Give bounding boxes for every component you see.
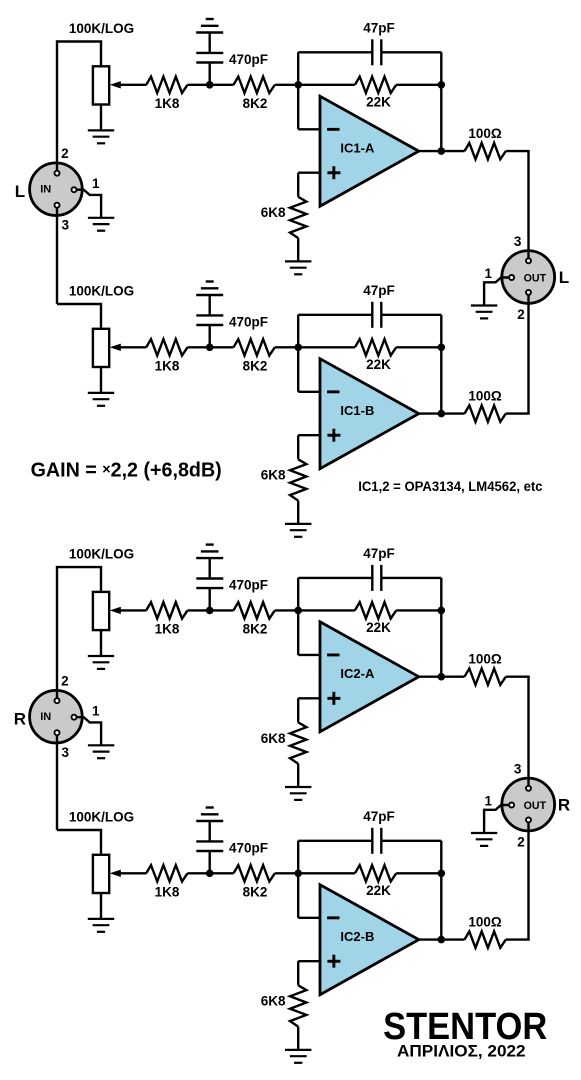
XLR input connector IN (L channel) bbox=[30, 163, 83, 216]
svg-text:22K: 22K bbox=[366, 620, 391, 635]
resistor 1K8 (IC2-A stage) bbox=[146, 602, 187, 618]
OUT R pin 3 bbox=[526, 786, 531, 791]
capacitor 47pF (IC2-A stage) bbox=[372, 565, 381, 591]
wire 470pF top bbox=[208, 33, 210, 53]
svg-text:100Ω: 100Ω bbox=[468, 914, 502, 929]
wire 47pF right bbox=[381, 840, 441, 842]
ground pot IC2-B bbox=[88, 919, 114, 932]
svg-text:470pF: 470pF bbox=[229, 577, 268, 592]
wire 100R to XLR corner bbox=[506, 150, 530, 152]
pot wiper arrow (IC1-A stage) bbox=[118, 84, 146, 86]
wire 22K to right vertical bbox=[396, 609, 441, 611]
wire 470pF top bbox=[208, 821, 210, 841]
OUT L pin 3 bbox=[526, 258, 531, 263]
resistor 6K8 (IC2-B stage) bbox=[290, 985, 306, 1026]
ground 6K8 (IC1-B stage) bbox=[285, 524, 311, 537]
gain note text bbox=[31, 459, 222, 481]
wire 47pF left bbox=[298, 314, 372, 316]
svg-text:IC1-B: IC1-B bbox=[340, 403, 374, 418]
capacitor 47pF (IC1-B stage) bbox=[372, 302, 381, 328]
node 470pF junction (IC1-B) bbox=[206, 344, 214, 352]
capacitor 470pF (IC2-A stage) bbox=[196, 579, 223, 589]
svg-text:47pF: 47pF bbox=[363, 546, 395, 561]
svg-text:R: R bbox=[14, 710, 26, 729]
wire 47pF right bbox=[381, 577, 441, 579]
OUT R pin 1 bbox=[509, 803, 514, 808]
wire op-amp output bbox=[419, 938, 465, 940]
wire OUT R pin3 to stage A bbox=[527, 677, 529, 789]
wire 100R to XLR corner bbox=[506, 676, 530, 678]
wire non-inverting to 6K8 bbox=[297, 698, 299, 722]
IN R pin 2 bbox=[55, 698, 60, 703]
capacitor 47pF (IC2-B stage) bbox=[372, 828, 381, 854]
resistor 22K (IC2-A stage) bbox=[355, 602, 396, 618]
wire 470pF bottom bbox=[208, 851, 210, 873]
capacitor 470pF (IC1-B stage) bbox=[196, 315, 223, 325]
wire 470pF bottom bbox=[208, 63, 210, 85]
resistor 8K2 (IC2-B stage) bbox=[234, 865, 275, 881]
wire IN L pin1 to ground bbox=[77, 190, 102, 218]
svg-text:6K8: 6K8 bbox=[261, 205, 286, 220]
resistor 100&#937; (IC1-A stage) bbox=[465, 143, 506, 159]
wire op-amp output bbox=[419, 676, 465, 678]
wire pot IC2-B bottom bbox=[100, 893, 102, 919]
wire node to 22K bbox=[298, 84, 355, 86]
node 470pF junction (IC2-B) bbox=[206, 870, 214, 878]
svg-text:IC1,2 = OPA3134, LM4562, etc: IC1,2 = OPA3134, LM4562, etc bbox=[358, 479, 543, 494]
svg-text:100K/LOG: 100K/LOG bbox=[69, 809, 134, 824]
wire to inverting input bbox=[298, 128, 321, 130]
ground 6K8 (IC2-A stage) bbox=[285, 787, 311, 800]
node 470pF junction (IC2-A) bbox=[206, 607, 214, 615]
node inverting input (IC1-A) bbox=[294, 81, 302, 89]
wire feedback left vertical bbox=[297, 315, 299, 392]
node 22K/47pF right (IC1-A) bbox=[438, 81, 446, 89]
node inverting input (IC2-B) bbox=[294, 870, 302, 878]
IN L pin 2 bbox=[55, 171, 60, 176]
svg-text:47pF: 47pF bbox=[363, 809, 395, 824]
wire to inverting input bbox=[298, 391, 321, 393]
wire non-inverting to 6K8 bbox=[297, 961, 299, 985]
resistor 22K (IC1-B stage) bbox=[355, 339, 396, 355]
wire 100R to XLR corner bbox=[506, 938, 530, 940]
wire OUT L pin1 to ground bbox=[484, 278, 509, 306]
IN R pin 3 bbox=[55, 730, 60, 735]
svg-text:ΑΠΡΙΛΙΟΣ, 2022: ΑΠΡΙΛΙΟΣ, 2022 bbox=[397, 1041, 526, 1060]
svg-text:GAIN = ×2,2 (+6,8dB): GAIN = ×2,2 (+6,8dB) bbox=[31, 459, 222, 481]
svg-text:1: 1 bbox=[92, 176, 100, 191]
ground top (IC2-B stage) bbox=[196, 808, 223, 822]
resistor 8K2 (IC2-A stage) bbox=[234, 602, 275, 618]
wire OUT R pin2 to stage B bbox=[527, 820, 529, 940]
svg-text:1: 1 bbox=[484, 266, 492, 281]
resistor 22K (IC2-B stage) bbox=[355, 865, 396, 881]
OUT L pin 2 bbox=[526, 290, 531, 295]
wire feedback right vertical bbox=[440, 52, 442, 151]
wire 47pF left bbox=[298, 577, 372, 579]
ground OUT L pin1 bbox=[471, 306, 497, 319]
wire IN R pin1 to ground bbox=[77, 717, 102, 745]
svg-text:1: 1 bbox=[92, 704, 100, 719]
node output (IC2-B) bbox=[438, 936, 446, 944]
wire op-amp output bbox=[419, 150, 465, 152]
ground IN L pin1 bbox=[88, 218, 114, 231]
svg-text:6K8: 6K8 bbox=[261, 994, 286, 1009]
node output (IC1-B) bbox=[438, 410, 446, 418]
wire pot IC1-B bottom bbox=[100, 367, 102, 393]
pot wiper arrow (IC2-A stage) bbox=[118, 609, 146, 611]
wire IN R pin2 to stage A bbox=[56, 566, 58, 701]
wire 470pF top bbox=[208, 558, 210, 578]
ground pot IC1-A bbox=[88, 130, 114, 143]
wire to non-inverting input bbox=[298, 697, 321, 699]
wire feedback left vertical bbox=[297, 578, 299, 655]
wire pot IC1-B top bbox=[57, 304, 101, 329]
IN L pin 3 bbox=[55, 203, 60, 208]
node inverting input (IC2-A) bbox=[294, 607, 302, 615]
node output (IC1-A) bbox=[438, 147, 446, 155]
wire IN L pin2 to stage A bbox=[56, 40, 58, 173]
potentiometer 100K/LOG (IC1-B stage) bbox=[93, 329, 109, 367]
op-amp IC2-A bbox=[320, 622, 419, 732]
ground IN R pin1 bbox=[88, 745, 114, 758]
svg-text:IC2-B: IC2-B bbox=[340, 929, 374, 944]
wire 8K2 to inverting node bbox=[275, 609, 298, 611]
wire 1K8 to node bbox=[188, 872, 234, 874]
svg-text:2: 2 bbox=[517, 307, 525, 322]
svg-text:100K/LOG: 100K/LOG bbox=[69, 283, 134, 298]
svg-text:L: L bbox=[559, 268, 569, 287]
IN R pin 1 bbox=[72, 715, 77, 720]
wire pot IC2-A top bbox=[57, 567, 101, 592]
svg-text:100K/LOG: 100K/LOG bbox=[69, 547, 134, 562]
wire feedback right vertical bbox=[440, 578, 442, 677]
wire 47pF right bbox=[381, 51, 441, 53]
ground 6K8 (IC1-A stage) bbox=[285, 261, 311, 274]
wire to non-inverting input bbox=[298, 960, 321, 962]
resistor 100&#937; (IC1-B stage) bbox=[465, 405, 506, 421]
wire feedback right vertical bbox=[440, 841, 442, 940]
wire OUT R pin1 to ground bbox=[484, 805, 509, 833]
ground top (IC2-A stage) bbox=[196, 545, 223, 559]
node 22K/47pF right (IC1-B) bbox=[438, 344, 446, 352]
svg-text:1K8: 1K8 bbox=[155, 96, 180, 111]
svg-text:3: 3 bbox=[514, 234, 522, 249]
svg-text:1K8: 1K8 bbox=[155, 622, 180, 637]
resistor 1K8 (IC1-B stage) bbox=[146, 339, 187, 355]
svg-text:IN: IN bbox=[40, 711, 51, 723]
pot wiper arrow (IC1-B stage) bbox=[118, 346, 146, 348]
potentiometer 100K/LOG (IC2-A stage) bbox=[93, 592, 109, 630]
svg-text:6K8: 6K8 bbox=[261, 731, 286, 746]
svg-text:470pF: 470pF bbox=[229, 52, 268, 67]
wire pot IC2-A bottom bbox=[100, 630, 102, 656]
wire IN R pin3 to stage B bbox=[56, 733, 58, 830]
svg-text:100K/LOG: 100K/LOG bbox=[69, 21, 134, 36]
svg-text:22K: 22K bbox=[366, 357, 391, 372]
wire 470pF bottom bbox=[208, 325, 210, 347]
svg-text:IC1-A: IC1-A bbox=[340, 140, 375, 155]
resistor 1K8 (IC2-B stage) bbox=[146, 865, 187, 881]
svg-text:47pF: 47pF bbox=[363, 21, 395, 36]
ground top (IC1-A stage) bbox=[196, 19, 223, 33]
wire 100R to XLR corner bbox=[506, 412, 530, 414]
wire 22K to right vertical bbox=[396, 84, 441, 86]
node output (IC2-A) bbox=[438, 673, 446, 681]
XLR output connector OUT (R channel) bbox=[502, 778, 555, 831]
wire node to 22K bbox=[298, 346, 355, 348]
wire 1K8 to node bbox=[188, 346, 234, 348]
wire IN L pin3 to stage B bbox=[56, 205, 58, 304]
OUT L pin 1 bbox=[509, 275, 514, 280]
IN L pin 1 bbox=[72, 187, 77, 192]
resistor 6K8 (IC2-A stage) bbox=[290, 722, 306, 763]
wire 6K8 to ground bbox=[297, 1027, 299, 1050]
svg-text:22K: 22K bbox=[366, 883, 391, 898]
svg-text:IN: IN bbox=[40, 184, 51, 196]
potentiometer 100K/LOG (IC2-B stage) bbox=[93, 855, 109, 893]
OUT R pin 2 bbox=[526, 817, 531, 822]
potentiometer 100K/LOG (IC1-A stage) bbox=[93, 66, 109, 104]
wire 1K8 to node bbox=[188, 84, 234, 86]
wire pot IC2-B top bbox=[57, 830, 101, 855]
resistor 100&#937; (IC2-B stage) bbox=[465, 931, 506, 947]
svg-text:470pF: 470pF bbox=[229, 840, 268, 855]
capacitor 470pF (IC1-A stage) bbox=[196, 53, 223, 63]
node inverting input (IC1-B) bbox=[294, 344, 302, 352]
svg-text:470pF: 470pF bbox=[229, 314, 268, 329]
wire 470pF bottom bbox=[208, 588, 210, 610]
svg-text:1K8: 1K8 bbox=[155, 358, 180, 373]
wire non-inverting to 6K8 bbox=[297, 435, 299, 459]
ground OUT R pin1 bbox=[471, 833, 497, 846]
svg-text:3: 3 bbox=[514, 762, 522, 777]
svg-text:IC2-A: IC2-A bbox=[340, 666, 375, 681]
wire OUT L pin2 to stage B bbox=[527, 292, 529, 413]
svg-text:100Ω: 100Ω bbox=[468, 388, 502, 403]
resistor 8K2 (IC1-B stage) bbox=[234, 339, 275, 355]
wire pot IC1-A top bbox=[57, 42, 101, 67]
wire 8K2 to inverting node bbox=[275, 84, 298, 86]
resistor 1K8 (IC1-A stage) bbox=[146, 77, 187, 93]
wire node to 22K bbox=[298, 609, 355, 611]
wire 8K2 to inverting node bbox=[275, 346, 298, 348]
resistor 6K8 (IC1-A stage) bbox=[290, 197, 306, 238]
svg-text:2: 2 bbox=[61, 146, 69, 161]
wire node to 22K bbox=[298, 872, 355, 874]
node 22K/47pF right (IC2-A) bbox=[438, 607, 446, 615]
svg-text:R: R bbox=[558, 795, 570, 814]
wire to inverting input bbox=[298, 654, 321, 656]
wire feedback left vertical bbox=[297, 52, 299, 129]
svg-text:OUT: OUT bbox=[524, 272, 547, 284]
XLR output connector OUT (L channel) bbox=[502, 251, 555, 304]
wire 47pF left bbox=[298, 51, 372, 53]
ground top (IC1-B stage) bbox=[196, 282, 223, 296]
ground pot IC1-B bbox=[88, 393, 114, 406]
wire 6K8 to ground bbox=[297, 501, 299, 524]
wire to inverting input bbox=[298, 917, 321, 919]
XLR input connector IN (R channel) bbox=[30, 690, 83, 743]
svg-text:22K: 22K bbox=[366, 95, 391, 110]
op-amp IC1-A bbox=[320, 96, 419, 206]
wire OUT L pin3 to stage A bbox=[527, 151, 529, 261]
node 22K/47pF right (IC2-B) bbox=[438, 870, 446, 878]
ground pot IC2-A bbox=[88, 656, 114, 669]
svg-text:100Ω: 100Ω bbox=[468, 126, 502, 141]
wire 8K2 to inverting node bbox=[275, 872, 298, 874]
svg-text:8K2: 8K2 bbox=[243, 622, 268, 637]
wire op-amp output bbox=[419, 412, 465, 414]
wire 22K to right vertical bbox=[396, 346, 441, 348]
resistor 22K (IC1-A stage) bbox=[355, 77, 396, 93]
svg-text:8K2: 8K2 bbox=[243, 358, 268, 373]
op-amp IC1-B bbox=[320, 359, 419, 469]
svg-text:L: L bbox=[15, 182, 25, 201]
wire 6K8 to ground bbox=[297, 238, 299, 261]
wire to non-inverting input bbox=[298, 434, 321, 436]
svg-text:1K8: 1K8 bbox=[155, 884, 180, 899]
svg-text:8K2: 8K2 bbox=[243, 884, 268, 899]
wire 6K8 to ground bbox=[297, 764, 299, 787]
svg-text:3: 3 bbox=[61, 745, 69, 760]
svg-text:6K8: 6K8 bbox=[261, 468, 286, 483]
wire 47pF left bbox=[298, 840, 372, 842]
svg-text:3: 3 bbox=[61, 218, 69, 233]
svg-text:47pF: 47pF bbox=[363, 283, 395, 298]
pot wiper arrow (IC2-B stage) bbox=[118, 872, 146, 874]
wire 1K8 to node bbox=[188, 609, 234, 611]
wire pot IC1-A bottom bbox=[100, 105, 102, 131]
capacitor 470pF (IC2-B stage) bbox=[196, 841, 223, 851]
op-amp IC2-B bbox=[320, 885, 419, 995]
capacitor 47pF (IC1-A stage) bbox=[372, 39, 381, 65]
wire 22K to right vertical bbox=[396, 872, 441, 874]
svg-text:1: 1 bbox=[484, 794, 492, 809]
svg-text:8K2: 8K2 bbox=[243, 96, 268, 111]
resistor 6K8 (IC1-B stage) bbox=[290, 459, 306, 500]
resistor 100&#937; (IC2-A stage) bbox=[465, 669, 506, 685]
svg-text:OUT: OUT bbox=[524, 800, 547, 812]
svg-text:100Ω: 100Ω bbox=[468, 652, 502, 667]
svg-text:2: 2 bbox=[61, 673, 69, 688]
svg-text:2: 2 bbox=[517, 835, 525, 850]
wire feedback left vertical bbox=[297, 841, 299, 918]
node 470pF junction (IC1-A) bbox=[206, 81, 214, 89]
wire 470pF top bbox=[208, 295, 210, 315]
wire 47pF right bbox=[381, 314, 441, 316]
wire feedback right vertical bbox=[440, 315, 442, 414]
wire to non-inverting input bbox=[298, 171, 321, 173]
ground 6K8 (IC2-B stage) bbox=[285, 1050, 311, 1063]
wire non-inverting to 6K8 bbox=[297, 173, 299, 197]
resistor 8K2 (IC1-A stage) bbox=[234, 77, 275, 93]
